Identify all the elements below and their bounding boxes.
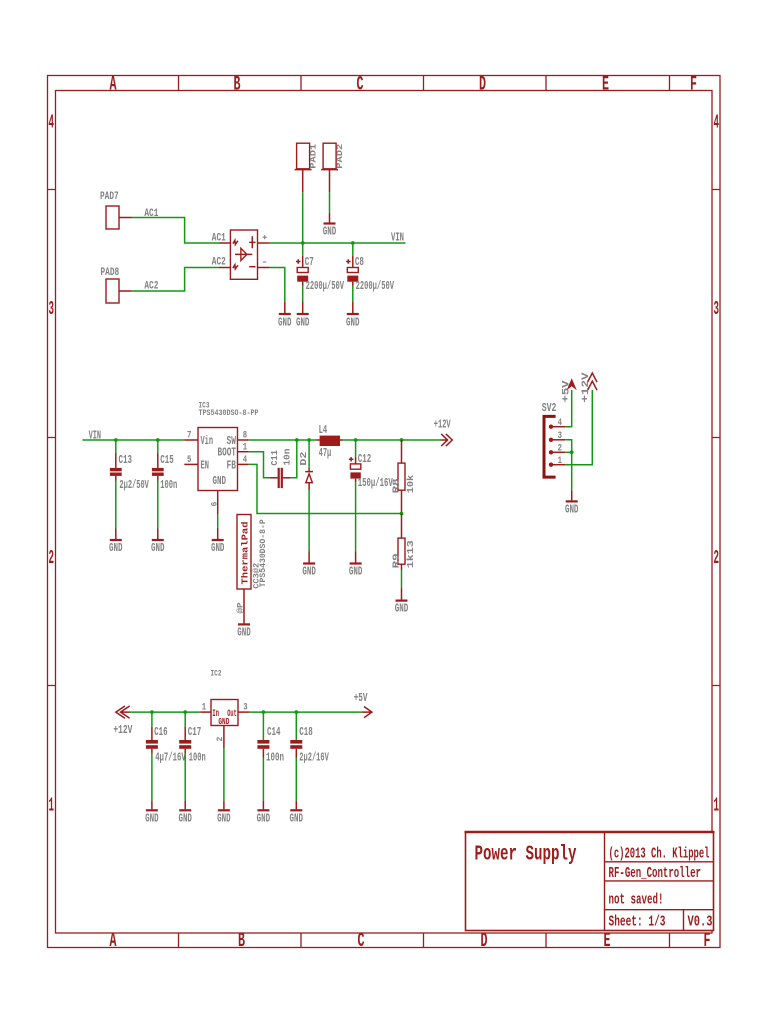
- svg-text:A: A: [110, 73, 117, 96]
- svg-text:Vin: Vin: [201, 435, 214, 448]
- svg-text:AC2: AC2: [144, 281, 158, 293]
- pin 3: [549, 438, 553, 442]
- frame outer border: [48, 76, 721, 948]
- svg-text:2200µ/50V: 2200µ/50V: [306, 279, 345, 293]
- pin 4: [549, 425, 553, 429]
- svg-text:GND: GND: [237, 627, 251, 640]
- svg-text:GND: GND: [217, 813, 231, 826]
- svg-text:1: 1: [714, 795, 720, 817]
- svg-text:A: A: [110, 930, 117, 953]
- svg-text:FB: FB: [227, 460, 237, 473]
- capacitor C15: [157, 440, 159, 453]
- svg-text:3: 3: [243, 703, 247, 714]
- svg-text:+5V: +5V: [354, 692, 368, 705]
- svg-text:2: 2: [558, 443, 562, 454]
- svg-text:D: D: [481, 930, 488, 953]
- svg-text:GND: GND: [213, 475, 227, 488]
- svg-text:3: 3: [714, 298, 720, 320]
- svg-text:GND: GND: [290, 813, 304, 826]
- svg-text:1: 1: [202, 703, 206, 714]
- svg-text:4: 4: [714, 112, 720, 134]
- ground: [152, 539, 164, 541]
- svg-text:4: 4: [558, 418, 562, 429]
- capacitor C12: [355, 440, 357, 457]
- svg-text:C15: C15: [160, 453, 174, 467]
- pin 2: [549, 450, 553, 454]
- title block dividers: [605, 832, 714, 931]
- svg-text:R9: R9: [391, 553, 402, 568]
- svg-text:4: 4: [243, 455, 247, 466]
- wire VIN rail: [269, 242, 406, 244]
- svg-text:PAD8: PAD8: [101, 267, 120, 279]
- svg-text:F: F: [690, 73, 697, 96]
- wire SW rail: [249, 439, 317, 441]
- frame inner border: [56, 91, 713, 934]
- svg-text:1k13: 1k13: [405, 540, 416, 569]
- svg-text:PAD2: PAD2: [335, 144, 345, 169]
- svg-text:C: C: [357, 73, 364, 96]
- svg-text:E: E: [604, 930, 611, 953]
- junction: [400, 512, 404, 516]
- svg-text:C8: C8: [355, 255, 364, 269]
- svg-text:1: 1: [243, 443, 247, 454]
- svg-text:GND: GND: [145, 813, 159, 826]
- svg-text:V0.3: V0.3: [688, 915, 713, 931]
- svg-text:RF-Gen_Controller: RF-Gen_Controller: [609, 866, 702, 882]
- capacitor C13: [115, 440, 117, 453]
- ground: [218, 809, 230, 811]
- wire +12V net: [565, 390, 592, 465]
- svg-text:2: 2: [714, 547, 720, 569]
- ground: [212, 539, 224, 541]
- svg-text:100n: 100n: [189, 751, 206, 765]
- svg-text:+12V: +12V: [113, 724, 132, 737]
- svg-text:4: 4: [49, 112, 55, 134]
- junction: [351, 241, 355, 245]
- svg-text:AC1: AC1: [144, 208, 158, 220]
- frame top ticks: [179, 76, 670, 91]
- wire GND net: [565, 440, 572, 491]
- pin 1: [549, 463, 553, 467]
- svg-text:GND: GND: [349, 566, 363, 579]
- svg-text:VIN: VIN: [391, 231, 404, 244]
- connector PAD7: [106, 206, 119, 229]
- frame left ticks: [48, 190, 56, 686]
- wire AC2: [132, 268, 220, 292]
- junction: [150, 710, 154, 714]
- IC2 ground pin: [223, 726, 225, 749]
- svg-text:AC2: AC2: [212, 257, 226, 269]
- svg-text:2µ2/50V: 2µ2/50V: [119, 478, 149, 492]
- svg-text:2: 2: [49, 547, 55, 569]
- wire VIN rail: [83, 439, 185, 441]
- ground: [350, 562, 362, 564]
- wire: [329, 192, 331, 212]
- svg-text:GND: GND: [296, 317, 310, 330]
- svg-text:SV2: SV2: [542, 402, 557, 415]
- diode D2: [308, 440, 310, 469]
- ground: [324, 222, 336, 224]
- junction: [295, 438, 299, 442]
- wire +5V rail: [250, 711, 363, 713]
- ground: [566, 500, 578, 502]
- ground: [303, 562, 315, 564]
- title block outline: [466, 832, 714, 931]
- svg-text:IC2: IC2: [211, 669, 222, 679]
- svg-text:Power Supply: Power Supply: [475, 844, 577, 867]
- svg-text:E: E: [602, 73, 609, 96]
- supply +12V arrow left: [116, 706, 130, 718]
- svg-text:100n: 100n: [160, 478, 177, 492]
- svg-text:GND: GND: [395, 603, 409, 616]
- frame right ticks: [712, 190, 720, 686]
- svg-text:@P: @P: [236, 602, 245, 613]
- capacitor C18: [295, 712, 297, 740]
- ground: [257, 809, 269, 811]
- frame bottom ticks: [179, 933, 670, 948]
- svg-text:TPS5430DSO-8-PP: TPS5430DSO-8-PP: [199, 408, 259, 418]
- ground: [347, 313, 359, 315]
- supply +12V arrow: [588, 373, 597, 390]
- svg-text:C14: C14: [267, 725, 281, 739]
- svg-text:+5V: +5V: [561, 380, 573, 403]
- junction: [262, 710, 266, 714]
- wire +5V: [565, 390, 572, 427]
- svg-text:not saved!: not saved!: [609, 893, 664, 909]
- resistor R8: [401, 440, 403, 463]
- thermal pad CC3: [237, 515, 251, 590]
- ground: [179, 809, 191, 811]
- junction: [570, 450, 574, 454]
- supply +5V arrow right: [362, 707, 372, 718]
- junction: [400, 438, 404, 442]
- svg-text:GND: GND: [346, 317, 360, 330]
- svg-text:PAD7: PAD7: [100, 191, 119, 203]
- junction: [156, 438, 160, 442]
- svg-text:GND: GND: [323, 226, 337, 239]
- svg-text:EN: EN: [201, 460, 210, 473]
- ground: [110, 539, 122, 541]
- wire +12V rail: [129, 711, 200, 713]
- svg-text:8: 8: [243, 431, 247, 442]
- junction: [354, 438, 358, 442]
- wire BOOT net: [249, 452, 270, 478]
- junction: [307, 438, 311, 442]
- resistor R9: [401, 514, 403, 539]
- svg-text:TPS5430DSO-8-P: TPS5430DSO-8-P: [259, 519, 268, 587]
- svg-text:GND: GND: [257, 813, 271, 826]
- svg-text:GND: GND: [211, 542, 225, 555]
- svg-text:B: B: [234, 73, 241, 96]
- capacitor C8: [352, 243, 354, 256]
- svg-text:C17: C17: [188, 725, 202, 739]
- svg-text:B: B: [238, 930, 245, 953]
- svg-text:GND: GND: [278, 317, 292, 330]
- svg-text:ThermalPad: ThermalPad: [240, 522, 250, 585]
- svg-text:PAD1: PAD1: [308, 144, 318, 169]
- wire FB net: [249, 464, 402, 513]
- supply +12V arrow: [441, 434, 453, 446]
- junction: [294, 710, 298, 714]
- capacitor C16: [151, 712, 153, 727]
- svg-text:GND: GND: [109, 542, 123, 555]
- svg-text:C: C: [358, 930, 365, 953]
- svg-text:3: 3: [558, 431, 562, 442]
- junction: [114, 438, 118, 442]
- svg-text:GND: GND: [565, 504, 579, 517]
- svg-text:C18: C18: [299, 725, 313, 739]
- capacitor C14: [262, 712, 264, 740]
- connector PAD8: [106, 279, 119, 303]
- svg-text:47µ: 47µ: [319, 446, 332, 460]
- wire +12V rail: [343, 439, 441, 441]
- svg-text:1: 1: [558, 456, 562, 467]
- svg-text:+12V: +12V: [580, 372, 592, 403]
- svg-text:2: 2: [216, 737, 225, 742]
- svg-text:100n: 100n: [266, 751, 284, 765]
- svg-text:10n: 10n: [282, 449, 293, 466]
- capacitor C7: [302, 243, 304, 256]
- svg-text:R8: R8: [391, 478, 402, 494]
- svg-text:C13: C13: [119, 453, 133, 467]
- svg-text:D: D: [479, 73, 486, 96]
- ground: [238, 623, 250, 625]
- wire AC1: [132, 218, 220, 244]
- supply +5V arrow: [567, 378, 577, 390]
- svg-text:4µ7/16V: 4µ7/16V: [155, 751, 186, 765]
- svg-text:C7: C7: [305, 255, 314, 269]
- svg-text:6: 6: [210, 502, 219, 507]
- svg-text:150µ/16V: 150µ/16V: [358, 476, 393, 490]
- svg-text:GND: GND: [178, 813, 192, 826]
- svg-text:7: 7: [187, 431, 191, 442]
- svg-text:2200µ/50V: 2200µ/50V: [356, 279, 395, 293]
- ground: [396, 599, 408, 601]
- svg-text:C16: C16: [154, 725, 168, 739]
- svg-text:D2: D2: [298, 452, 309, 466]
- connector PAD1: [297, 143, 310, 169]
- connector PAD2: [323, 143, 336, 169]
- svg-text:Sheet: 1/3: Sheet: 1/3: [609, 915, 666, 931]
- inductor L4: [316, 439, 319, 441]
- svg-text:C11: C11: [269, 450, 280, 466]
- svg-text:10k: 10k: [405, 474, 416, 493]
- svg-text:L4: L4: [319, 423, 328, 437]
- svg-text:+12V: +12V: [434, 419, 451, 432]
- svg-text:5: 5: [187, 455, 191, 466]
- ground: [146, 809, 158, 811]
- svg-text:(c)2013 Ch. Klippel: (c)2013 Ch. Klippel: [609, 847, 710, 863]
- ground: [290, 809, 302, 811]
- svg-text:AC1: AC1: [212, 232, 226, 244]
- capacitor C17: [184, 712, 186, 727]
- IC3 ground pin: [217, 491, 219, 514]
- svg-text:GND: GND: [151, 542, 165, 555]
- wire: [302, 192, 304, 243]
- svg-text:1: 1: [49, 795, 55, 817]
- svg-text:2µ2/16V: 2µ2/16V: [299, 751, 329, 765]
- bridge rectifier B1: [230, 230, 257, 279]
- svg-text:3: 3: [49, 298, 55, 320]
- junction: [183, 710, 187, 714]
- svg-text:C12: C12: [358, 452, 372, 466]
- junction: [301, 241, 305, 245]
- wire minus output: [269, 268, 285, 303]
- svg-text:BOOT: BOOT: [218, 447, 237, 460]
- capacitor C11: [270, 477, 278, 479]
- ground: [279, 313, 291, 315]
- ground: [297, 313, 309, 315]
- svg-text:F: F: [704, 930, 711, 953]
- svg-text:GND: GND: [302, 566, 316, 579]
